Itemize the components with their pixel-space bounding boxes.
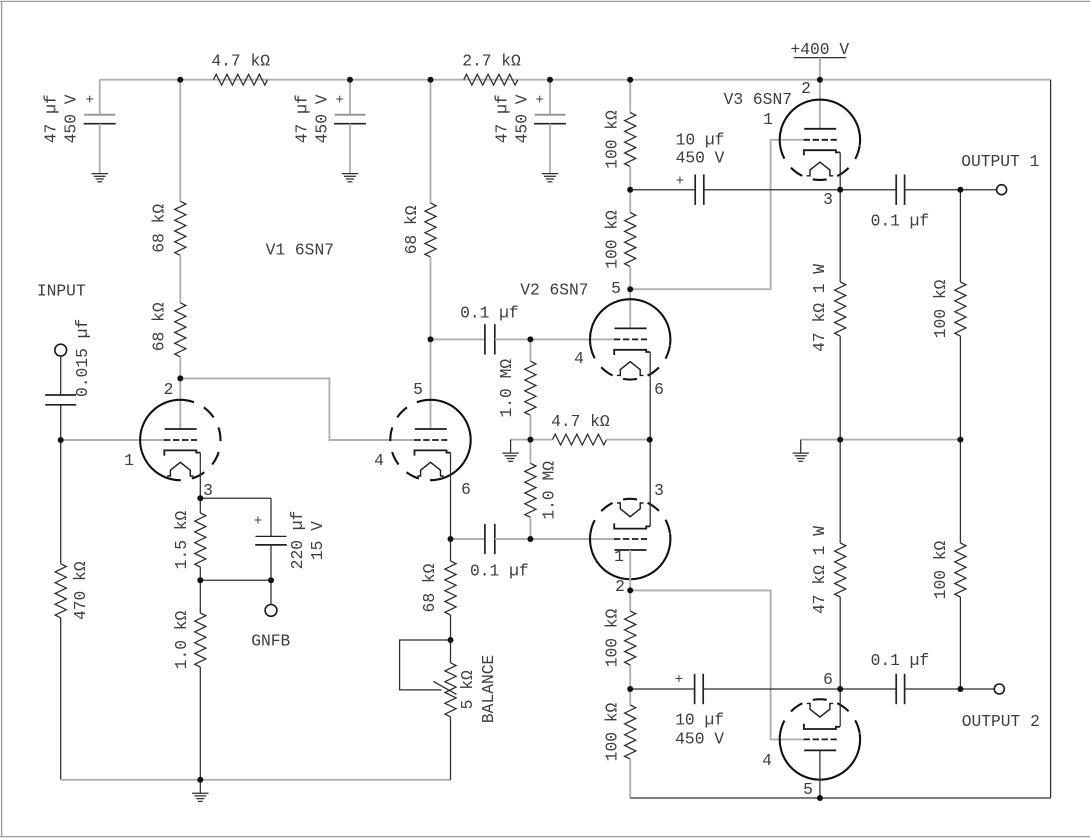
wire: [60, 440, 62, 564]
svg-text:100 kΩ: 100 kΩ: [602, 210, 621, 269]
wire: [349, 124, 351, 174]
capacitor C6 0.1uF: [484, 324, 486, 354]
svg-text:+: +: [675, 672, 683, 688]
svg-text:100 kΩ: 100 kΩ: [602, 702, 621, 761]
wire V2a cathode lead: [649, 352, 651, 439]
wire: [959, 336, 961, 440]
wire V3b cathode lead: [839, 689, 841, 727]
svg-text:6: 6: [823, 670, 833, 689]
node: [197, 495, 203, 501]
resistor R4 68k: [175, 201, 186, 255]
svg-text:+: +: [335, 93, 343, 109]
svg-text:68 kΩ: 68 kΩ: [149, 302, 168, 351]
wire bottom left: [61, 779, 451, 781]
wire: [607, 439, 650, 441]
wire: [549, 124, 551, 174]
svg-text:4.7 kΩ: 4.7 kΩ: [551, 412, 610, 431]
resistor R19 47k 1W: [835, 543, 846, 597]
wire mid ground: [801, 439, 841, 441]
wire V1b cathode lead: [450, 453, 452, 539]
node: [527, 437, 533, 443]
resistor R7 1.0k: [195, 613, 206, 667]
capacitor C10 10uF: [694, 674, 696, 704]
capacitor C2 47uF: [335, 114, 366, 116]
terminal OUTPUT1: [997, 185, 1007, 195]
svg-text:47 kΩ 1 W: 47 kΩ 1 W: [810, 526, 829, 614]
triode V2a: [590, 299, 670, 345]
svg-text:2: 2: [164, 380, 174, 399]
border bottom: [0, 836, 1090, 838]
svg-text:100 kΩ: 100 kΩ: [602, 608, 621, 667]
wire: [450, 717, 452, 780]
wire: [451, 538, 485, 540]
svg-text:0.1 µf: 0.1 µf: [460, 304, 519, 323]
wire V2b grid: [530, 538, 614, 540]
wire: [60, 405, 62, 440]
svg-text:0.1 µf: 0.1 µf: [470, 562, 529, 581]
resistor R8 68k: [425, 203, 436, 257]
power +400V underline: [794, 57, 846, 59]
svg-text:5 kΩ: 5 kΩ: [458, 670, 477, 709]
wire: [549, 80, 551, 115]
wire: [200, 497, 271, 499]
svg-text:4: 4: [762, 751, 772, 770]
wire: [200, 579, 271, 581]
wire: [430, 257, 432, 339]
node: [527, 536, 533, 542]
wire: [450, 640, 452, 663]
wire: [529, 440, 531, 464]
svg-text:1.0 MΩ: 1.0 MΩ: [540, 461, 559, 520]
resistor R14 100k: [625, 113, 636, 167]
wire: [60, 618, 62, 780]
svg-text:2: 2: [801, 79, 811, 98]
wire ground lead: [199, 780, 201, 793]
ground: [192, 792, 208, 794]
svg-text:3: 3: [654, 481, 664, 500]
wire: [840, 439, 960, 441]
svg-text:68 kΩ: 68 kΩ: [420, 563, 439, 612]
svg-text:+400 V: +400 V: [790, 40, 849, 59]
node: [197, 777, 203, 783]
svg-text:BALANCE: BALANCE: [479, 655, 498, 723]
svg-text:+: +: [254, 513, 262, 529]
terminal OUTPUT2: [994, 684, 1004, 694]
wire V3a cathode lead: [839, 152, 841, 189]
triode V1b: [431, 400, 471, 480]
svg-text:V1 6SN7: V1 6SN7: [266, 240, 334, 259]
svg-text:4: 4: [574, 349, 584, 368]
wire: [99, 124, 101, 174]
svg-text:4: 4: [374, 451, 384, 470]
svg-text:47 kΩ 1 W: 47 kΩ 1 W: [810, 264, 829, 352]
capacitor C3 47uF: [535, 114, 566, 116]
node: [177, 375, 183, 381]
svg-text:0.1 µf: 0.1 µf: [871, 211, 930, 230]
node: [837, 187, 843, 193]
resistor R16 100k: [625, 611, 636, 665]
wire: [839, 336, 841, 440]
node: [627, 187, 633, 193]
wire: [959, 190, 961, 282]
wire: [959, 597, 961, 689]
wire: [430, 80, 432, 203]
node: [957, 187, 963, 193]
triode V3a: [780, 100, 860, 146]
svg-text:6: 6: [654, 380, 664, 399]
wire: [629, 190, 631, 213]
resistor R12 1.0M: [525, 463, 536, 517]
svg-text:1.5 kΩ: 1.5 kΩ: [172, 510, 191, 569]
svg-text:5: 5: [803, 780, 813, 799]
wire: [529, 517, 531, 539]
wire: [839, 190, 841, 282]
node: [547, 77, 553, 83]
ground: [793, 452, 809, 454]
svg-text:47 µf: 47 µf: [42, 94, 61, 143]
wire: [629, 167, 631, 190]
wire V2a grid: [530, 338, 614, 340]
svg-text:100 kΩ: 100 kΩ: [602, 110, 621, 169]
node: [428, 336, 434, 342]
wire: [703, 688, 840, 690]
wire: [839, 440, 841, 543]
border top: [0, 0, 1090, 2]
wire: [629, 759, 631, 798]
svg-text:3: 3: [203, 481, 213, 500]
wire: [450, 615, 452, 640]
node: [837, 686, 843, 692]
wire B+ right: [1050, 80, 1052, 798]
wire: [60, 356, 62, 395]
wire: [905, 688, 961, 690]
resistor R18 47k 1W: [835, 282, 846, 336]
wire bottom right: [630, 797, 1050, 799]
wire: [840, 189, 896, 191]
border left: [1, 1, 3, 836]
svg-text:100 kΩ: 100 kΩ: [931, 279, 950, 338]
capacitor C4 0.015uF: [45, 394, 76, 396]
wire: [630, 189, 695, 191]
svg-text:+: +: [85, 93, 93, 109]
capacitor C1 47uF: [84, 114, 115, 116]
wire V1a grid: [61, 439, 165, 441]
wire: [819, 58, 821, 80]
wire link V2a-V3a grid: [630, 140, 804, 289]
wire: [629, 267, 631, 290]
ground: [92, 173, 108, 175]
svg-text:GNFB: GNFB: [251, 631, 290, 650]
capacitor C11 0.1uF: [895, 674, 897, 704]
wire: [450, 539, 452, 561]
svg-text:1: 1: [763, 110, 773, 129]
wire ground lead: [510, 440, 512, 453]
wire: [839, 597, 841, 689]
triode V2b: [590, 533, 670, 579]
resistor R11 1.0M: [525, 361, 536, 415]
wire: [960, 688, 994, 690]
wire V2b cathode lead: [649, 440, 651, 527]
node: [428, 77, 434, 83]
terminal GNFB: [265, 605, 277, 617]
resistor R21 100k: [955, 543, 966, 597]
resistor R6 1.5k: [195, 513, 206, 567]
node: [527, 336, 533, 342]
svg-text:OUTPUT 1: OUTPUT 1: [961, 152, 1039, 171]
svg-text:0.015 µf: 0.015 µf: [73, 319, 92, 397]
triode V1a: [140, 400, 180, 480]
node: [347, 77, 353, 83]
node: [268, 577, 274, 583]
svg-text:450 V: 450 V: [512, 94, 531, 143]
resistor R1 4.7k: [214, 74, 268, 85]
node: [817, 77, 823, 83]
wire: [270, 545, 272, 580]
node: [197, 577, 203, 583]
svg-text:47 µf: 47 µf: [493, 94, 512, 143]
wire: [199, 580, 201, 613]
wire V1b plate lead: [430, 339, 432, 429]
wire: [495, 538, 531, 540]
wire: [629, 665, 631, 689]
svg-text:3: 3: [823, 190, 833, 209]
node: [957, 437, 963, 443]
wire: [199, 667, 201, 780]
wire: [630, 688, 694, 690]
wire: [840, 688, 896, 690]
svg-text:5: 5: [611, 279, 621, 298]
wire V3b plate lead: [819, 750, 821, 798]
node: [58, 437, 64, 443]
resistor R13 4.7k: [553, 434, 607, 445]
wire link V2b-V3b grid: [630, 590, 804, 739]
svg-text:4.7 kΩ: 4.7 kΩ: [211, 51, 270, 70]
wire: [960, 189, 996, 191]
svg-text:220 µf: 220 µf: [288, 511, 307, 570]
wire GNFB lead: [270, 580, 272, 604]
node: [627, 286, 633, 292]
capacitor C9 0.1uF: [895, 175, 897, 205]
svg-text:47 µf: 47 µf: [293, 94, 312, 143]
svg-text:V3 6SN7: V3 6SN7: [724, 90, 792, 109]
node: [647, 437, 653, 443]
svg-text:V2 6SN7: V2 6SN7: [520, 281, 588, 300]
wire: [431, 338, 485, 340]
wire pot loop: [400, 640, 451, 690]
terminal INPUT: [55, 344, 67, 356]
svg-text:10 µf: 10 µf: [675, 711, 724, 730]
ground: [542, 173, 558, 175]
wire B+ rail: [100, 79, 1051, 81]
wire V2b plate lead: [629, 550, 631, 590]
ground: [502, 452, 518, 454]
wire: [179, 357, 181, 379]
wire ground lead: [800, 440, 802, 453]
wire: [199, 498, 201, 513]
wire: [530, 439, 552, 441]
svg-text:68 kΩ: 68 kΩ: [402, 205, 421, 254]
wire: [629, 590, 631, 611]
resistor R15 100k: [625, 213, 636, 267]
wire: [179, 255, 181, 302]
svg-text:470 kΩ: 470 kΩ: [71, 561, 90, 620]
resistor R2 2.7k: [464, 74, 518, 85]
potentiometer R10 5k BALANCE: [445, 663, 456, 717]
wire pot wiper arrow: [433, 681, 456, 694]
node: [957, 686, 963, 692]
node: [837, 437, 843, 443]
svg-text:2: 2: [615, 577, 625, 596]
wire: [529, 339, 531, 361]
svg-text:450 V: 450 V: [61, 94, 80, 143]
svg-text:2.7 kΩ: 2.7 kΩ: [462, 51, 521, 70]
node: [627, 587, 633, 593]
svg-text:1: 1: [124, 451, 134, 470]
resistor R17 100k: [625, 705, 636, 759]
wire: [270, 498, 272, 536]
svg-text:1: 1: [614, 547, 624, 566]
wire: [905, 189, 961, 191]
wire: [629, 689, 631, 705]
node: [627, 686, 633, 692]
svg-text:450 V: 450 V: [676, 149, 725, 168]
node: [627, 77, 633, 83]
wire link V1a-V1b: [180, 378, 414, 440]
svg-text:68 kΩ: 68 kΩ: [149, 204, 168, 253]
wire: [179, 80, 181, 202]
node: [448, 637, 454, 643]
ground: [342, 173, 358, 175]
node: [448, 536, 454, 542]
triode V3b: [780, 734, 860, 780]
wire: [959, 440, 961, 543]
svg-text:450 V: 450 V: [675, 729, 724, 748]
node: [817, 795, 823, 801]
wire: [99, 80, 101, 115]
wire V2a plate lead: [629, 289, 631, 328]
svg-text:INPUT: INPUT: [37, 282, 86, 301]
capacitor C7 0.1uF: [484, 524, 486, 554]
resistor R9 68k: [445, 561, 456, 615]
svg-text:+: +: [676, 174, 684, 190]
wire V1a plate lead: [179, 378, 181, 429]
wire: [349, 80, 351, 115]
resistor R3 470k: [55, 564, 66, 618]
svg-text:6: 6: [461, 480, 471, 499]
svg-text:1.0 MΩ: 1.0 MΩ: [497, 359, 516, 418]
svg-text:1.0 kΩ: 1.0 kΩ: [172, 610, 191, 669]
wire: [629, 80, 631, 113]
wire: [529, 415, 531, 439]
svg-text:10 µf: 10 µf: [676, 131, 725, 150]
svg-text:450 V: 450 V: [312, 94, 331, 143]
capacitor C8 10uF: [694, 175, 696, 205]
wire: [199, 567, 201, 580]
svg-text:5: 5: [413, 380, 423, 399]
wire V1a cathode lead: [199, 453, 201, 499]
node: [177, 77, 183, 83]
svg-text:OUTPUT 2: OUTPUT 2: [962, 712, 1040, 731]
capacitor C5 220uF: [256, 535, 287, 537]
svg-text:100 kΩ: 100 kΩ: [931, 540, 950, 599]
resistor R5 68k: [175, 303, 186, 357]
resistor R20 100k: [955, 282, 966, 336]
wire: [511, 439, 531, 441]
svg-text:+: +: [535, 93, 543, 109]
svg-text:0.1 µf: 0.1 µf: [871, 651, 930, 670]
svg-text:15 V: 15 V: [308, 521, 327, 560]
wire V3a plate lead: [819, 80, 821, 129]
wire: [495, 338, 531, 340]
wire: [704, 189, 840, 191]
